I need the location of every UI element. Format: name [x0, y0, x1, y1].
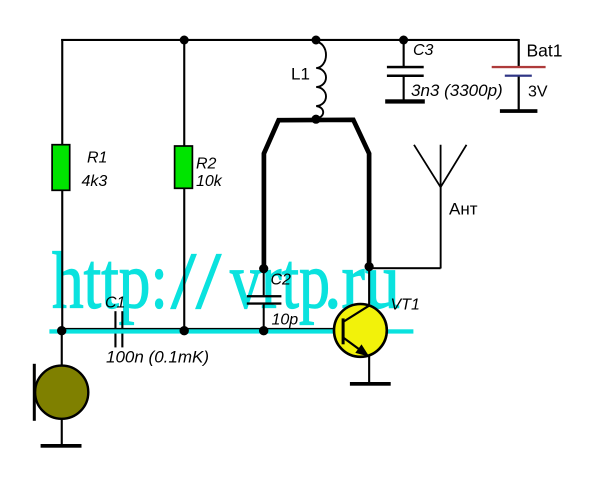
watermark underline (cyan) over base bus [49, 329, 413, 333]
wire R2 branch top [183, 39, 185, 146]
svg-text:4k3: 4k3 [82, 173, 108, 190]
transistor VT1 body [334, 304, 387, 357]
node junction C2 loop [259, 264, 268, 273]
ground bar under C3 [385, 99, 425, 103]
transistor VT1 emitter stroke [344, 338, 367, 355]
wire top bus from R1 to Bat1 [61, 39, 519, 41]
wire emitter to ground [368, 356, 370, 383]
capacitor C3 plate bottom [387, 75, 424, 78]
capacitor C3 plate top [387, 66, 424, 69]
wire antenna horizontal [369, 267, 441, 269]
antenna Ant symbol [414, 145, 467, 187]
inductor L1 [316, 42, 326, 119]
svg-text:10k: 10k [196, 173, 223, 190]
svg-text:10p: 10p [272, 312, 299, 329]
svg-text:Bat1: Bat1 [527, 41, 563, 61]
svg-text:3n3 (3300p): 3n3 (3300p) [411, 81, 503, 100]
wire C2 top from loop [263, 269, 265, 296]
antenna mast wire [440, 187, 442, 269]
svg-text:C2: C2 [271, 272, 292, 289]
microphone membrane bar [33, 364, 36, 421]
capacitor C1 plate left [114, 311, 116, 347]
capacitor C2 plate top [247, 295, 282, 297]
wire R2 to base bus [183, 188, 185, 330]
capacitor C2 plate bottom [247, 302, 282, 304]
wire C3 to ground [403, 77, 405, 100]
battery Bat1 positive plate (red) [492, 66, 546, 68]
wire collector VT1 from loop [368, 267, 370, 307]
wire Bat1 branch top [518, 39, 520, 66]
node junction top L1 [312, 36, 321, 45]
battery Bat1 negative plate (blue) [505, 75, 532, 77]
wire C2 to base bus [263, 305, 265, 332]
resistor R2 [175, 146, 193, 188]
wire R1 to base bus [61, 190, 63, 330]
ground bar under microphone [41, 444, 82, 448]
svg-text:C3: C3 [413, 42, 434, 59]
svg-text:L1: L1 [291, 65, 310, 84]
svg-text:Ант: Ант [449, 200, 478, 219]
svg-text:100n (0.1mK): 100n (0.1mK) [106, 348, 209, 367]
node junction top C3 [399, 36, 408, 45]
wire Bat1 to ground [518, 77, 520, 110]
transistor VT1 collector stroke [344, 306, 369, 322]
node junction L1 bottom loop [311, 115, 320, 124]
node junction base bus C2 [259, 326, 268, 335]
svg-text:VT1: VT1 [391, 297, 420, 314]
node junction top R2 [180, 36, 189, 45]
resistor R1 [52, 145, 70, 191]
node junction base bus microphone [57, 326, 66, 335]
wire base bus from mic to VT1 base [61, 328, 342, 330]
transistor VT1 base bar [342, 318, 345, 344]
microphone BM1 body [35, 366, 88, 419]
transistor VT1 emitter arrow [355, 344, 369, 356]
capacitor C1 plate right [121, 311, 123, 347]
thick oscillator loop wire L1/C2/VT1 [264, 120, 369, 269]
ground bar under VT1 emitter [350, 382, 391, 386]
svg-text:C1: C1 [105, 295, 125, 312]
ground bar under Bat1 [500, 109, 538, 113]
node junction collector antenna [365, 262, 374, 271]
svg-text:R1: R1 [87, 150, 107, 167]
wire microphone top [61, 330, 63, 366]
svg-text:3V: 3V [528, 84, 548, 101]
wire C3 branch top [403, 39, 405, 66]
wire R1 branch top [61, 39, 63, 145]
wire microphone bottom [61, 419, 63, 445]
svg-text:R2: R2 [196, 156, 217, 173]
node junction base bus R2 [180, 326, 189, 335]
